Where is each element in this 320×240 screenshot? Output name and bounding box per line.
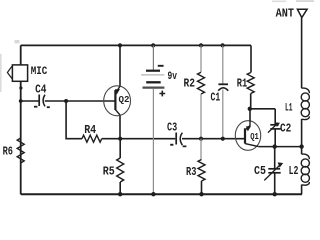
svg-text:R1: R1 <box>237 78 248 91</box>
wire: top supply rail <box>21 44 251 46</box>
wire: Q2 emitter down <box>119 115 121 139</box>
wire: bottom ground rail <box>21 193 302 195</box>
svg-text:C4: C4 <box>35 84 46 97</box>
svg-text:R5: R5 <box>103 166 115 179</box>
battery minus <box>158 65 164 67</box>
node: junction (249.7,108.8) <box>248 107 252 111</box>
node: rail dot Q2 collector <box>118 43 122 47</box>
battery B1 <box>151 43 155 47</box>
svg-text:R3: R3 <box>186 166 196 179</box>
inductor L2 <box>301 147 303 155</box>
svg-text:Q1: Q1 <box>250 131 259 142</box>
trimmer capacitor C5 <box>274 147 276 169</box>
svg-text:R2: R2 <box>184 78 196 91</box>
resistor R1 <box>250 45 252 72</box>
node: C5 ground <box>273 192 277 196</box>
wire: base line R4 to C3 <box>102 138 176 140</box>
wire: left vertical rail <box>20 45 22 194</box>
wire: audio line y=101 <box>21 100 39 102</box>
battery plus <box>159 91 165 97</box>
scan artifact: top-left smudge <box>15 40 20 43</box>
node: junction (66,101) <box>64 99 68 103</box>
resistor R5 <box>119 139 121 158</box>
trimmer capacitor C2 <box>274 109 276 125</box>
wire: branch down to R4 <box>66 101 82 139</box>
resistor R2 <box>199 43 203 47</box>
svg-text:C3: C3 <box>167 122 177 135</box>
wire: Q2 collector up <box>119 45 121 86</box>
svg-text:9v: 9v <box>168 71 178 83</box>
svg-text:R4: R4 <box>84 124 96 137</box>
transistor Q2 <box>104 86 131 116</box>
wire: to C2 <box>250 108 275 110</box>
wire: base line C3 to Q1 <box>182 138 245 140</box>
resistor R3 <box>200 139 202 160</box>
node: R3 ground <box>199 192 203 196</box>
node: R5 ground <box>118 192 122 196</box>
resistor R4 <box>82 135 102 142</box>
svg-text:MIC: MIC <box>31 66 48 78</box>
capacitor C3 <box>175 133 177 145</box>
svg-text:ANT: ANT <box>276 7 294 21</box>
resistor R6 <box>17 138 24 163</box>
microphone MIC <box>12 65 27 81</box>
node: C1 base line <box>221 137 225 141</box>
svg-text:R6: R6 <box>3 146 13 159</box>
svg-text:C2: C2 <box>280 123 291 136</box>
svg-text:L1: L1 <box>285 103 293 115</box>
capacitor C1 <box>221 43 225 47</box>
node: (274.7,146.6) <box>273 144 277 148</box>
svg-text:Q2: Q2 <box>119 94 130 105</box>
node: battery ground <box>151 192 155 196</box>
inductor L1 <box>302 88 310 93</box>
node: junction (120,138.7) <box>118 137 122 141</box>
node: junction (201,138.7) <box>199 137 203 141</box>
svg-text:C1: C1 <box>211 92 221 105</box>
transistor Q1 <box>235 121 260 151</box>
node: left tee (20.7,101) <box>19 99 23 103</box>
capacitor C4 <box>38 95 40 107</box>
svg-text:C5: C5 <box>254 165 266 178</box>
scan artifact: top-right smudges <box>272 1 286 3</box>
svg-text:L2: L2 <box>289 165 299 178</box>
scan artifact: left edge smudge <box>0 54 2 92</box>
node: mic polarity dot <box>19 86 22 89</box>
node: (301.6,146.6) <box>299 144 303 148</box>
wire: emitter tap y=146.6 <box>259 146 302 148</box>
antenna ANT symbol <box>297 9 307 17</box>
